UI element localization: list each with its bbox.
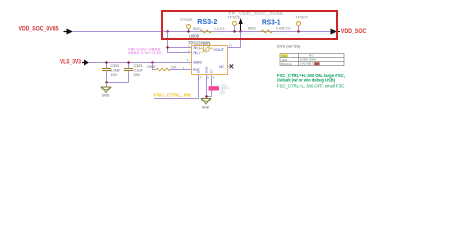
node junction gnd tap [105,81,107,83]
power port up-arrow (net TP_VDD_SOC_0V85) [239,18,243,32]
svg-text:GND: GND [202,106,210,110]
wire VOUT to rail [228,32,242,48]
svg-text:C303: C303 [111,64,120,68]
svg-text:VIN_2: VIN_2 [193,51,201,55]
svg-text:CT: CT [210,69,214,73]
node junction GND/CT [205,95,207,97]
note (magenta) VIN/VBAS range [128,48,163,55]
svg-text:NC: NC [219,65,224,69]
svg-text:VDD_SOC_0V85: VDD_SOC_0V85 [19,26,60,32]
testpoint TP605 [180,18,193,31]
wire VLS_3V3 rail [89,62,192,64]
svg-text:R601: R601 [193,27,201,31]
port arrow VLS_3V3 [82,60,89,66]
no-connect X on NC pin [227,64,233,68]
wire ON pin down [198,75,200,99]
svg-text:1.0 1%: 1.0 1% [214,27,225,31]
svg-text:VDD_SOC: VDD_SOC [341,29,367,35]
table DVS (ref DS) [277,44,344,66]
svg-text:ON: ON [197,69,201,74]
capacitor C303 1.0UF 10V [102,63,121,83]
svg-text:Default (w/ or w/o debug USB): Default (w/ or w/o debug USB) [277,77,335,82]
svg-text:10V: 10V [111,73,118,77]
svg-text:1+0.005 OHM: 1+0.005 OHM [300,62,320,66]
node junction TP605/rail [187,30,189,32]
svg-text:R509: R509 [147,65,155,69]
node junction C303 top [105,61,107,63]
svg-text:C323: C323 [134,64,143,68]
svg-text:VLS_3V3: VLS_3V3 [60,60,82,66]
svg-text:VIN_1: VIN_1 [193,46,201,50]
svg-text:FSC_CTRL_H6: FSC_CTRL_H6 [154,93,192,98]
resistor R601 1.0 1% [193,27,225,33]
svg-text:DVS (ref DS): DVS (ref DS) [277,44,301,49]
svg-text:VBAS 2.3V~3.3V: VBAS 2.3V~3.3V [128,51,163,55]
svg-text:1.0UF: 1.0UF [111,69,122,73]
capacitor C323 0.1uF 25V [124,63,143,83]
ground GND (caps) [101,83,112,98]
svg-text:96.0mA: 96.0mA [281,62,293,66]
svg-text:RS3-1: RS3-1 [262,17,281,26]
node junction VIN feed [166,30,168,32]
port arrow VDD_SOC (right) [331,29,338,35]
resistor R509 10K [147,63,192,71]
wire VIN_1 stub [167,47,192,49]
svg-text:FSC_CTRL=L, SW OFF, small FSC: FSC_CTRL=L, SW OFF, small FSC [277,84,345,89]
svg-text:TPS22990N: TPS22990N [188,40,210,45]
highlight box (red) around RS3 [162,11,337,39]
resistor R602 0.005 1% [248,27,290,33]
wire VIN feed vertical [167,32,169,54]
ground GND (U806) [201,99,212,110]
svg-text:VOUT: VOUT [214,48,225,52]
svg-text:10K: 10K [171,65,178,69]
wire GND pin down [206,75,208,99]
port arrow VDD_SOC_0V85 [64,29,74,35]
node junction TP607/rail [297,30,299,32]
svg-text:DNI: DNI [220,91,225,95]
wire VIN_2 stub [167,52,192,54]
svg-text:TP607: TP607 [295,16,308,20]
node junction C323 top [127,61,129,63]
svg-text:25V: 25V [134,73,141,77]
node junction R509 tap [151,61,153,63]
testpoint TP607 [295,16,308,32]
svg-text:RS3-2: RS3-2 [197,17,217,26]
svg-text:R602: R602 [248,27,256,31]
node junction VIN_1 [166,46,168,48]
svg-text:TP606: TP606 [227,16,240,20]
capacitor C605 (DNI, pink highlight) [209,83,230,95]
node junction TP606/rail [233,30,235,32]
load switch U806 TPS22990N [183,33,233,79]
wire cap bottom rail [106,82,129,84]
wire FSC_CTRL_H6 [154,98,199,100]
svg-text:VBIAS: VBIAS [193,60,202,64]
svg-text:U806: U806 [189,33,200,38]
svg-text:GND: GND [204,66,208,74]
svg-text:0.1uF: 0.1uF [134,69,144,73]
svg-text:GND: GND [102,93,110,97]
switch icon inside U806 [200,44,214,54]
node junction VOUT/rail [239,30,241,32]
svg-text:0.005 1%: 0.005 1% [276,27,290,31]
note (green) FSC_CTRL behaviour [277,73,345,89]
wire VDD_SOC_0V85 rail [73,31,331,33]
testpoint TP606 [227,16,240,32]
wire CT pin down [206,75,212,97]
svg-text:TP605: TP605 [180,18,193,22]
